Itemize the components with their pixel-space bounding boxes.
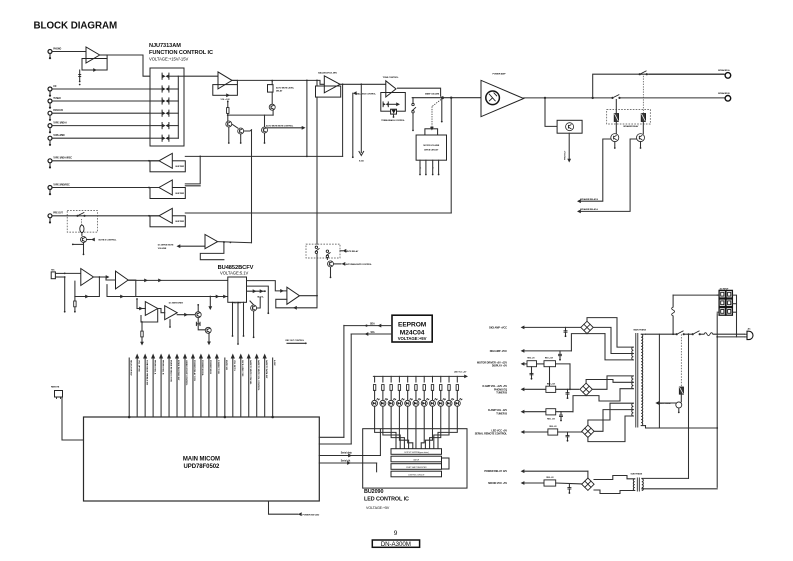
wire mic gnd [64,277,66,311]
arrow mute control [91,238,95,242]
feedback box mic amp1 [75,277,100,297]
input jack PHONO [48,50,52,54]
svg-text:5: 5 [420,168,421,170]
svg-text:MAIN VOLUME: MAIN VOLUME [425,93,440,96]
svg-text:P-DIRECT SW: P-DIRECT SW [217,360,219,375]
svg-text:BUFFER: BUFFER [176,221,185,223]
control line MUTE SW [224,358,226,417]
op-amp mic 1 [81,269,94,286]
resistor LED 7 [423,385,425,391]
transistor Q4 auto mute [269,104,275,110]
coil power relay [676,402,682,408]
wire relay return [658,334,660,428]
svg-text:SW ILLUMI CON: SW ILLUMI CON [241,360,243,377]
wire serial data into LED IC [319,455,380,457]
resistor auto mute level [268,85,274,93]
wire -VCC [524,350,571,352]
svg-text:SPEAKER B: SPEAKER B [718,92,730,95]
wire sub trans to AC a [642,477,689,479]
resistor mute bias [227,108,229,114]
terminal block AC input [719,290,725,298]
svg-text:PHONO: PHONO [53,48,61,50]
regulator d.amp +12V [546,386,556,392]
thermal fuse squiggle [704,333,713,336]
svg-text:EEPROM: EEPROM [398,322,427,329]
wire vertical V317 [316,97,318,244]
svg-text:DVD/AUX: DVD/AUX [53,109,63,112]
svg-text:DIGI AMP +VCC: DIGI AMP +VCC [489,326,507,329]
resistor leg phono feedback [79,70,81,81]
svg-text:DISPLAY +5V: DISPLAY +5V [492,365,508,368]
box control circuit [391,471,442,477]
wire Q2 base to control net [244,130,252,131]
wire to Q4 [271,92,273,104]
wire LED drop 1 [374,376,376,382]
wire Q1 emitter [228,127,230,142]
wire tone out to main volume node [398,88,441,96]
resistor LED 5 [406,385,408,391]
svg-text:MIC: MIC [51,270,55,272]
regulator micon +5V [544,480,556,486]
svg-text:MODE IN SELECT SW: MODE IN SELECT SW [169,360,171,383]
resistor LED 11 [456,385,458,391]
svg-text:SELECTOR SW: SELECTOR SW [129,360,131,376]
wire q emitter [208,333,210,343]
node pre-out loop [450,97,452,99]
wire TUNER to function IC [52,100,150,102]
svg-text:VOLTAGE:+5V: VOLTAGE:+5V [398,336,427,341]
wire B4 top to relay row [587,471,589,478]
motor terminals [419,160,421,173]
control line PHONO SEL A [152,358,154,417]
wire phono to function IC [107,55,150,76]
regulator +5V led [548,429,558,435]
arrow mute relay [343,249,347,253]
relay coil speaker A [641,114,645,122]
wire volume tap [441,99,443,121]
svg-text:OUTPUT SUPPRE(open drain): OUTPUT SUPPRE(open drain) [404,451,429,454]
svg-text:AUTO MUTE LEVEL: AUTO MUTE LEVEL [276,87,295,90]
op-amp power amplifier [481,80,524,116]
svg-text:POWER RELAY 12V: POWER RELAY 12V [484,470,507,473]
wire line amp output / main signal line [232,80,324,84]
wire LED supply row [524,431,548,433]
arrow power relay [655,401,659,405]
wire rail to Q3 [264,115,266,127]
relay contact mute 1 [315,246,317,248]
fuse squiggle [672,307,675,316]
IC box EEPROM [392,315,432,342]
svg-text:SPEAKER RELAY: SPEAKER RELAY [623,125,639,128]
svg-text:REMOTE: REMOTE [51,387,60,389]
sub trans secondary winding [642,479,644,491]
secondary step wires G2 [592,376,633,389]
svg-text:2: 2 [433,168,434,170]
wire mic1 resistor [74,297,76,301]
cap digi amp + [565,327,567,330]
wire serial 1 [319,436,344,438]
wire IC output [178,75,184,77]
feedback box balance amp [316,86,341,97]
wire pre out jack to buffer [52,215,159,217]
LED 3 [388,400,394,406]
wire relay to coil [680,394,682,402]
svg-text:VOL UP SW: VOL UP SW [137,360,139,373]
LED 7 [421,400,427,406]
wire control vertical V252 [251,130,253,243]
svg-text:POWER SW LED: POWER SW LED [303,515,320,517]
feedback box phono EQ [82,59,107,71]
wire CD to function IC [52,88,150,90]
control line SELECTOR SW [128,358,130,417]
arrow auto man mute control [342,262,346,266]
svg-text:BALANCE CONTROL: BALANCE CONTROL [357,92,377,95]
svg-text:TAPE-1/MD-A/REC: TAPE-1/MD-A/REC [53,157,72,160]
bridge rectifier B1 [581,321,593,333]
op-amp tone control [386,81,396,97]
wire mute Q emitter [330,267,332,277]
svg-text:PHONO SEL A: PHONO SEL A [153,360,156,375]
buffer TAPE-2 REC [150,188,185,199]
svg-text:TUNER B: TUNER B [496,392,507,395]
LED 8 [429,400,435,406]
wire volume to power amp [443,97,482,99]
wire feedback bus to BU4852 [136,296,228,298]
svg-text:TUNER: TUNER [53,98,61,100]
wire to AC plug [713,333,745,335]
LED 5 [405,400,411,406]
svg-text:SDA: SDA [370,323,375,326]
arrow supply MOTOR DRIVER +5V +12V [521,362,525,366]
control line P-DIRECT SW [216,358,218,417]
svg-text:VOLTAGE:+5V: VOLTAGE:+5V [366,506,390,510]
wire to Q dc servo [177,314,195,316]
staggered LED return wires [375,406,396,448]
footer model box [372,540,419,547]
wire into dc-drive opamp [180,245,205,247]
wire coilA to Q [642,122,644,134]
wire balance control [352,93,354,156]
sub trans primary winding [633,479,635,491]
node speaker branch [592,97,594,99]
wire remote to micom [62,397,84,440]
node control drop [209,296,211,298]
svg-text:SERIAL REMOTE CONTROL: SERIAL REMOTE CONTROL [475,433,508,436]
arrow supply D.AMP VOL +12V +5V [521,387,525,391]
feedback box line amp [213,85,238,96]
wire LED drop 6 [415,376,417,382]
svg-text:DRIVE CIRCUIT: DRIVE CIRCUIT [424,149,439,151]
wire mic to amp [65,272,81,274]
input jack TAPE-1/MD-A/REC [48,159,52,163]
wire servo sense down [141,322,143,331]
IC box BU4852BCFV [228,277,247,302]
wire mic contact b [55,276,64,278]
op-amp dc servo 2 [165,306,178,320]
svg-text:SPEAKER A: SPEAKER A [718,69,730,72]
wire headphone out [300,295,318,297]
svg-text:UPD78F0502: UPD78F0502 [184,464,220,470]
svg-text:SAFETY DATA SW: SAFETY DATA SW [265,360,268,379]
svg-text:POWER RELAY CON: POWER RELAY CON [193,360,196,381]
node dc-drive out b [230,242,232,244]
input jack TAPE-2/MD [48,136,52,140]
wire LED drop 4 [398,376,400,382]
wire TAPE-1/MD-A to function IC [52,125,150,127]
arrow auto mute control [302,126,306,130]
node dc-drive out a [223,241,225,243]
secondary winding G3 [632,403,634,416]
bridge rectifier B4 [582,478,594,490]
box protection [557,120,582,133]
regulator +12V [544,361,556,367]
relay coil speaker B [614,114,618,122]
svg-text:PRE OUT: PRE OUT [53,213,63,215]
LED 10 [446,400,452,406]
resistor LED 9 [440,385,442,391]
wire Q emitter [83,243,85,254]
svg-text:SPEAKER RELAY A: SPEAKER RELAY A [580,208,598,211]
transistor pre-out mute drive [81,237,87,243]
svg-text:NJU7313AM: NJU7313AM [149,43,181,49]
control line MODE IN DOWN SW [176,358,178,417]
op-amp mic 2 [116,271,129,289]
arrow protect [567,159,571,163]
input jack TUNER [48,99,52,103]
cap led supply [567,432,569,435]
relay coil pre-out mute [80,225,84,233]
control line JUMBO POINT CONTROL [184,358,186,417]
box BU2090 outer [363,429,467,488]
arrow supply MICON VCC +5V [521,481,525,485]
transistor speaker relay B drive [611,134,619,142]
wire mic contact a [55,272,64,274]
svg-text:PHONO SEL B: PHONO SEL B [161,360,163,375]
primary winding main trans [641,334,643,425]
wire tape1 rec jack to buffer [52,160,159,162]
wire DVD/AUX to function IC [52,112,150,114]
LED 4 [396,400,402,406]
resistor LED 2 [382,385,384,391]
wire into dc servo [137,308,145,310]
svg-text:9: 9 [394,530,398,537]
feedback box dc-drive opamp [200,242,224,260]
svg-text:CD: CD [53,86,57,88]
transistor Q2 auto mute [238,128,244,134]
arrow supply POWER RELAY 12V [521,469,525,473]
wire LED drop 5 [407,376,409,382]
svg-text:DC DRIVE MUTE: DC DRIVE MUTE [158,245,174,247]
svg-text:TONE BASS TREBLE SW: TONE BASS TREBLE SW [145,360,148,386]
svg-text:SCL: SCL [371,332,376,334]
svg-text:REG +12V: REG +12V [545,358,554,360]
control line MODE IN SELECT SW [168,358,170,417]
motor volume wiper arrow [432,100,441,107]
wire rec out control [287,342,305,344]
wire dc-drive output [218,242,252,243]
control line SAFETY MUTE VOL CONTROL [256,358,258,417]
wire speaker B line left [593,97,612,99]
transistor Q1 auto mute [226,121,232,127]
node headphone in [264,290,266,292]
svg-text:REG +12V: REG +12V [547,384,556,386]
svg-text:VOLTAGE:5.1V: VOLTAGE:5.1V [220,270,248,275]
feedback headphone opamp [276,296,317,308]
svg-text:AUTO/MAN MUTE CONTROL: AUTO/MAN MUTE CONTROL [346,263,373,266]
svg-text:SPEAKER RELAY B: SPEAKER RELAY B [580,198,598,201]
wire pre-out loop vertical [450,98,452,213]
mic jack [51,272,55,279]
cap +12V [567,389,569,392]
wire mic1 to mic2 [94,276,107,278]
wire BU4852 gnd 2 [237,302,239,343]
node to rec1 [306,80,308,82]
transistor speaker relay A drive [637,134,645,142]
svg-text:VOLTAGE:+15V/-15V: VOLTAGE:+15V/-15V [149,57,188,62]
svg-text:BUFFER: BUFFER [176,166,185,168]
wire primary bottom [646,426,718,428]
buffer TAPE-1 REC [150,161,185,172]
svg-text:DC SERVO/REV: DC SERVO/REV [169,302,184,304]
transistor headphone mute [251,305,257,311]
wire speaker B line right [620,97,725,99]
speaker A jack [725,73,731,79]
wire mute switch down [412,113,414,130]
wire LED drop 3 [390,376,392,382]
wire serial bus v1 [343,325,345,437]
svg-text:REG +5V: REG +5V [549,426,557,428]
wire power amp output [524,97,593,99]
svg-text:TUNER B: TUNER B [496,412,507,415]
svg-text:DN-A300M: DN-A300M [381,541,411,548]
wire led ic internal v1 [379,429,381,455]
wire coilB to Q [615,122,617,134]
wire reg2 to +12V row [549,367,551,390]
svg-text:BU2090: BU2090 [364,489,383,495]
arrow supply D.AMP VOL -12V [521,410,525,414]
cap micon [568,484,570,487]
relay contact mute 2 [326,250,328,252]
svg-text:BLOCK DIAGRAM: BLOCK DIAGRAM [34,20,118,31]
input jack CD [48,87,52,91]
bracket block right [732,295,736,337]
sub transformer core [636,478,638,492]
wire mic bus to BU4852 [128,279,228,281]
stub2 [169,320,171,326]
resistor LED 4 [398,385,400,391]
wire speaker A line [593,74,724,98]
wire down to rec bus [306,80,308,156]
svg-text:MUTE RELAY: MUTE RELAY [346,250,359,253]
feedback box tone control [381,93,406,112]
box osc [442,458,450,469]
wire Q1 to Q2 [232,124,238,128]
LED 2 [380,400,386,406]
dashed box speaker relay [607,110,651,125]
svg-text:TREBLE/BASS CONTROL: TREBLE/BASS CONTROL [381,119,405,122]
wire LED drop 7 [423,376,425,382]
arrow supply LED VCC +5V [521,430,525,434]
svg-text:TONE CONTROL: TONE CONTROL [383,77,400,79]
bridge rectifier B2 [580,383,592,395]
svg-text:MOTOR VOLUME: MOTOR VOLUME [423,145,440,147]
svg-text:12-BIT SHIFT REGISTER: 12-BIT SHIFT REGISTER [406,467,427,469]
internal bus of function IC [177,76,179,138]
svg-text:POWER AMP: POWER AMP [492,73,506,76]
wire BU4852 gnd 1 [232,302,234,335]
wire motor driver supply [524,363,527,365]
arrow balance control [353,91,357,95]
element treble-bass pot [391,109,397,114]
wire block to sub trans B [716,314,718,488]
wire SDA [344,325,392,327]
relay element power relay [679,387,683,394]
wire protect down [568,133,570,159]
wire contact2 to Q [326,258,328,260]
op-amp dc drive mute [205,235,218,249]
arrow supply DIGI AMP -VCC [521,349,525,353]
resistor LED 6 [415,385,417,391]
node protect tap [544,97,546,99]
wire V317 lower [316,254,318,296]
input jack PRE OUT [48,214,52,218]
wire balance out to tone amp [340,83,386,85]
svg-text:REC OUT CONTROL: REC OUT CONTROL [286,340,305,342]
wire volume node left segment [412,97,442,99]
secondary step wires G1 [587,318,633,348]
wiper housing motor volume [425,129,438,135]
wire to signal ground [360,84,362,152]
svg-text:AUTO MUTE MUTE CONTROL: AUTO MUTE MUTE CONTROL [266,124,294,127]
feedback box mic amp2 [107,280,136,297]
feedback loop balance amp [342,84,344,156]
op-amp line amplifier [218,72,232,89]
transistor dc servo 2 [205,327,211,333]
svg-text:TAPE-2/MD: TAPE-2/MD [53,134,65,137]
svg-text:BALANCE/VOL MIN: BALANCE/VOL MIN [318,71,337,74]
wire TAPE-2/MD to function IC [52,137,150,139]
svg-text:TAPE-2/MD/REC: TAPE-2/MD/REC [53,183,70,186]
wire micom power sw [269,501,298,514]
wire +VCC to bridge1 [524,326,581,328]
svg-text:DELAY: DELAY [276,89,283,92]
wire pre-out loop horizontal [185,212,451,214]
svg-text:SUB TRANS: SUB TRANS [631,473,643,476]
control line SW ILLUMI CON [240,358,242,417]
wire LED drop 2 [382,376,384,382]
svg-text:VOL +10V: VOL +10V [232,302,242,304]
stub QA [640,142,642,147]
op-amp balance [324,76,340,93]
wire row3 to bridge2 row [569,364,571,389]
svg-text:MAIN TRANS: MAIN TRANS [634,329,647,332]
wire AC line left [646,333,677,335]
cap digi amp - [559,351,561,354]
control line VOL UP SW [136,358,138,417]
transistor Q3 auto mute [262,127,268,133]
wire T5 collector up [257,298,261,309]
power amp internal symbol [486,91,500,105]
svg-text:BUFFER: BUFFER [176,193,185,195]
svg-text:POWER MD B: POWER MD B [209,360,211,374]
control line SAFETY MUTE CON SEL [248,358,250,417]
wire sub trans to AC b [642,488,717,490]
bracket block left [717,294,719,296]
wire to protect [545,98,557,127]
input jack TAPE-1/MD-A [48,124,52,128]
wire phono jack to phono EQ amp [52,51,86,53]
resistor LED 10 [448,385,450,391]
